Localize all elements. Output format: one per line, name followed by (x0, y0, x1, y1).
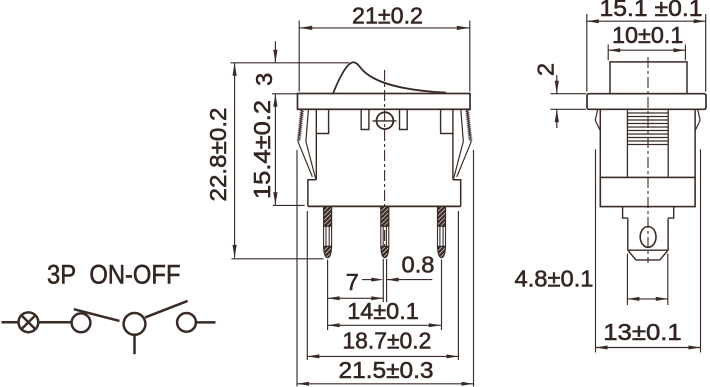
right latch arm (466, 109, 472, 141)
svg-text:4.8±0.1: 4.8±0.1 (515, 266, 594, 292)
left latch arm (298, 109, 304, 141)
svg-text:21.5±0.3: 21.5±0.3 (339, 357, 434, 383)
svg-text:2: 2 (533, 63, 559, 76)
terminal step 2 (628, 218, 668, 250)
svg-text:21±0.2: 21±0.2 (352, 3, 423, 29)
pin 2 (center) (381, 206, 389, 257)
front view flange (298, 94, 471, 110)
svg-text:15.4±0.2: 15.4±0.2 (249, 100, 275, 199)
svg-text:15.1 ±0.1: 15.1 ±0.1 (600, 0, 703, 21)
svg-text:3: 3 (251, 73, 277, 86)
svg-text:14±0.1: 14±0.1 (347, 298, 419, 324)
lever 2 (145, 301, 188, 318)
left barb (595, 109, 600, 131)
svg-text:13±0.1: 13±0.1 (603, 319, 682, 345)
wire (2, 321, 19, 324)
dimension 14±0.1 (328, 324, 441, 326)
terminal chamfered bottom (628, 250, 668, 260)
terminal step 1 (623, 207, 674, 219)
svg-text:3P ON-OFF: 3P ON-OFF (47, 259, 181, 289)
lamp (19, 312, 39, 332)
dimension 22.8±0.2 (234, 63, 236, 258)
pin extension lines (327, 260, 329, 331)
right outer tab (441, 109, 453, 133)
left outer tab (316, 109, 328, 133)
rocker top extension line (231, 62, 350, 64)
dimension 21.5±0.3 (296, 150, 298, 387)
wire (38, 321, 71, 324)
dimension 4.8±0.1 (626, 254, 628, 306)
dimension 0.8 (362, 279, 372, 281)
svg-text:10±0.1: 10±0.1 (612, 22, 684, 48)
dimension 18.7±0.2 (306, 211, 308, 360)
svg-text:0.8: 0.8 (402, 252, 435, 278)
terminal hole (640, 227, 656, 248)
dimension 15.1±0.1 (587, 20, 706, 22)
svg-text:18.7±0.2: 18.7±0.2 (342, 328, 431, 354)
side cap (610, 62, 687, 94)
upper body wall right (452, 134, 454, 180)
side centerline (647, 57, 649, 263)
dimension 10±0.1 (608, 49, 685, 51)
ribs (627, 113, 668, 145)
side body walls (599, 109, 601, 177)
right center tab (400, 109, 408, 129)
dimension 7 (328, 297, 384, 299)
pole circle 3 (124, 313, 146, 335)
screw head circle (377, 112, 394, 129)
front centerline (384, 70, 386, 258)
dimension 2 (556, 75, 558, 94)
svg-text:22.8±0.2: 22.8±0.2 (205, 108, 231, 202)
dimension 3 and 15.4±0.2 (274, 41, 276, 63)
contact circle 2 (72, 313, 91, 332)
rocker actuator (333, 62, 446, 93)
dimension 21±0.2 (299, 27, 470, 29)
middle bar (600, 177, 695, 206)
svg-text:7: 7 (346, 269, 359, 295)
side flange (587, 94, 706, 110)
rib column (626, 109, 628, 177)
lever 1 (74, 309, 120, 321)
right barb (695, 109, 700, 131)
upper body wall left (315, 134, 317, 180)
wire (196, 321, 216, 324)
pole drop wire (133, 335, 136, 354)
lower body (308, 180, 461, 207)
screw slot line (373, 120, 397, 122)
pin 3 (right) (438, 206, 446, 257)
left center tab (361, 109, 369, 129)
pin 1 (left) (324, 206, 332, 257)
dimension 13±0.1 (595, 149, 597, 352)
contact circle 4 (177, 313, 196, 332)
